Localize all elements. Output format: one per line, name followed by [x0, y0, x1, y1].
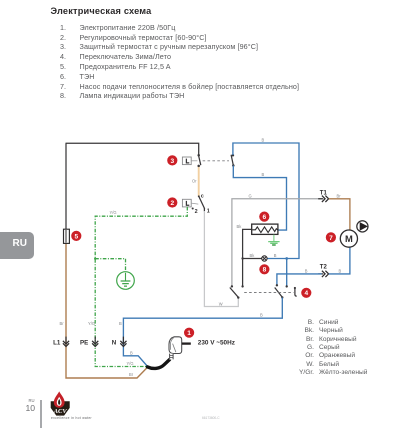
callout 7: [326, 232, 336, 242]
heating element 6 (TEN) box: [252, 224, 278, 234]
svg-text:B: B: [130, 351, 133, 356]
pump direction icon: [357, 221, 368, 232]
svg-text:Bk: Bk: [250, 253, 256, 258]
svg-text:1: 1: [207, 209, 210, 215]
svg-text:3: 3: [170, 158, 174, 165]
svg-text:Y/G: Y/G: [127, 361, 134, 366]
svg-text:B: B: [262, 138, 265, 143]
svg-text:L1: L1: [53, 340, 61, 347]
plug 1 body: [169, 337, 182, 354]
svg-text:B: B: [119, 321, 122, 326]
wire gray G: switch4 left pole up and right to T1: [232, 199, 322, 286]
wire blue: switch4 common down to N: [123, 298, 282, 367]
dashed mechanical link of switch 4: [244, 292, 293, 294]
callout 1: [184, 328, 194, 338]
node green junction: [94, 258, 96, 260]
wire blue top loop: switch up right and down to lamp junction: [233, 143, 299, 259]
wire colour legend: [290, 319, 314, 326]
terminal PE chevron: [94, 337, 96, 343]
svg-text:Or: Or: [192, 178, 197, 183]
heater earth ground symbol (green): [273, 235, 275, 242]
RU side tab: [0, 232, 34, 260]
terminal N chevron: [122, 337, 124, 343]
blue switch (controlled by thermostat 3) lever: [231, 155, 233, 166]
svg-text:c: c: [201, 194, 204, 200]
svg-text:Y/G: Y/G: [110, 210, 117, 215]
wire brown T1 to motor: [329, 199, 350, 230]
heating element zigzag: [252, 227, 277, 233]
terminal T1 chevron: [318, 198, 323, 200]
svg-text:M: M: [345, 233, 353, 244]
svg-text:Br: Br: [129, 372, 134, 377]
list items 1-8: [55, 23, 66, 32]
contact 1 tick: [203, 208, 205, 212]
node black junction at lamp line: [241, 257, 243, 259]
motor M pump 7: [340, 230, 357, 247]
svg-text:Bk: Bk: [237, 224, 243, 229]
thermostat 3 switch lever: [199, 156, 201, 166]
earth electrode symbol (green circle): [117, 272, 135, 290]
svg-text:B: B: [260, 313, 263, 318]
footer page number: [22, 398, 35, 403]
lamp 8 left lead black: [243, 258, 262, 260]
wire orange Or thermostat3 to thermostat2: [198, 166, 200, 196]
terminal T2 chevron: [318, 273, 323, 275]
svg-text:N: N: [112, 340, 117, 347]
svg-text:B: B: [339, 268, 342, 273]
ACV logo flame: [54, 391, 65, 407]
wire blue: switch bottom to heater right terminal: [233, 166, 286, 231]
ACV logo inner flame: [57, 397, 62, 406]
svg-text:Y/G: Y/G: [88, 321, 95, 326]
ACV logo shield: [51, 401, 70, 415]
callout 2: [167, 197, 177, 207]
switch 4 actuator handle: [295, 288, 297, 296]
contact 2 (unused): [192, 207, 194, 209]
svg-text:B: B: [262, 172, 265, 177]
switch 4 right pole lever: [275, 288, 283, 298]
wire blue: lamp junction down to switch4 right pole: [286, 259, 288, 287]
svg-text:G: G: [249, 194, 252, 199]
svg-text:8: 8: [263, 267, 267, 274]
callout 6: [259, 212, 269, 222]
svg-text:Br: Br: [337, 194, 342, 199]
svg-text:PE: PE: [80, 340, 88, 347]
wire black from top-left corner to fuse: [65, 143, 67, 229]
callout 3: [167, 155, 177, 165]
tagline: [51, 416, 92, 420]
thermostat 3 body U3: [182, 157, 191, 165]
svg-text:7: 7: [329, 235, 333, 242]
wire black top horizontal to thermostat 3: [66, 143, 199, 155]
switch 4 right pole contacts: [276, 284, 278, 286]
footer doc code: [202, 416, 220, 420]
svg-text:ACV: ACV: [53, 408, 68, 415]
fuse F1 12.5A: [64, 229, 70, 243]
thermostat 2 body U2: [182, 199, 191, 207]
wire Y/G green: thermostat2 body to PE and plug: [95, 207, 187, 367]
svg-text:B: B: [305, 268, 308, 273]
callout 8: [259, 264, 269, 274]
svg-text:2: 2: [195, 209, 198, 215]
svg-text:1: 1: [187, 330, 191, 337]
switch 4 left pole lever: [230, 288, 239, 298]
power cable (thick): [148, 360, 170, 369]
terminal L1 chevron: [65, 337, 67, 343]
plug pin: [182, 342, 191, 344]
switch 4 winter/summer: left pole contacts: [231, 285, 233, 287]
callout 4: [301, 288, 311, 298]
svg-text:230 V ~50Hz: 230 V ~50Hz: [198, 340, 235, 347]
svg-text:2: 2: [170, 200, 174, 207]
wire L1 brown: fuse to bottom corner to plug cable: [66, 243, 148, 378]
svg-text:6: 6: [262, 214, 266, 221]
callout 5: [71, 231, 81, 241]
heading: [51, 6, 152, 16]
thermostat 2 switch lever c-1: [199, 196, 205, 209]
plug neck ribs: [169, 354, 174, 360]
svg-text:Br: Br: [60, 321, 65, 326]
lamp 8 symbol: [262, 256, 267, 261]
dashed mechanical link thermostat3 to blue switch: [203, 160, 229, 162]
svg-text:4: 4: [304, 290, 308, 297]
wire black: heater left terminal down to lamp and switch4: [243, 229, 252, 286]
lamp 8 right lead blue: [267, 258, 287, 260]
svg-text:W: W: [219, 301, 223, 306]
svg-text:T1: T1: [320, 191, 328, 197]
footer divider bar: [40, 400, 42, 428]
node: thermostat3 contacts: [197, 154, 200, 157]
svg-text:T2: T2: [320, 264, 328, 270]
svg-text:5: 5: [74, 233, 78, 240]
wire blue T2 to motor: [329, 247, 350, 274]
wire green branch to earth electrode: [95, 259, 125, 272]
svg-text:B: B: [274, 253, 277, 258]
node blue junction at lamp line: [285, 257, 288, 260]
wire blue: T2 line to switch4 right pole: [277, 274, 322, 285]
wire white W: contact1 down, right, up to switch4 left pole common: [204, 211, 238, 307]
